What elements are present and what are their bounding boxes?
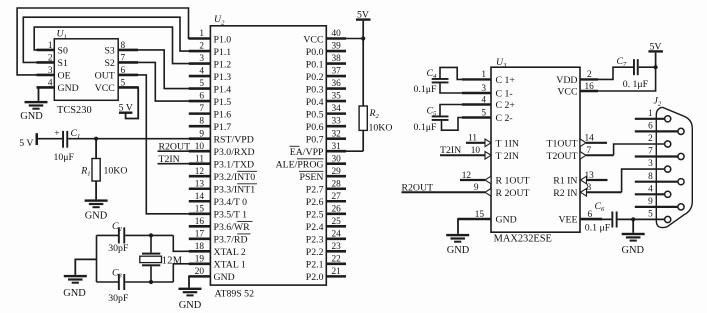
svg-text:P3.0/RXD: P3.0/RXD	[214, 147, 255, 158]
IC U3 MAX232ESE	[462, 57, 594, 245]
svg-text:P3.2/INT0: P3.2/INT0	[214, 172, 256, 183]
wire pin12 stub	[460, 179, 485, 181]
J2 pin circles	[665, 116, 685, 223]
svg-text:C 2+: C 2+	[496, 100, 516, 111]
wire net VCC40 to 5V	[326, 38, 363, 40]
svg-text:P2.0: P2.0	[306, 272, 324, 283]
junction node RST	[94, 137, 98, 141]
svg-text:9: 9	[648, 197, 653, 207]
wire net C5+ to pin4	[440, 105, 491, 116]
svg-text:10KO: 10KO	[104, 166, 128, 177]
U3 left pin stubs thick	[458, 79, 491, 219]
svg-text:GND: GND	[214, 272, 235, 283]
svg-text:GND: GND	[85, 210, 108, 221]
capacitor C5 0.1uF	[414, 106, 449, 134]
wire J2 pin7 stub	[635, 155, 678, 157]
ground at C6	[622, 233, 645, 235]
svg-text:VCC: VCC	[557, 87, 577, 98]
capacitor C1 10uF	[54, 128, 81, 163]
wire J2 pin1 stub	[635, 118, 665, 120]
wire net S1 to P1.1	[23, 17, 210, 62]
svg-text:P0.0: P0.0	[306, 47, 324, 58]
buffer triangle pin14 T1OUT	[580, 139, 586, 147]
svg-text:XTAL 1: XTAL 1	[214, 260, 246, 271]
svg-text:GND: GND	[58, 83, 79, 94]
wire J2 pin6 stub	[635, 130, 678, 132]
wire pin14 T1OUT stub	[586, 142, 607, 144]
svg-text:6: 6	[648, 122, 653, 132]
wire net C4- to pin3	[440, 83, 491, 93]
svg-text:P3.5/T 1: P3.5/T 1	[214, 210, 248, 221]
svg-text:AT89S 52: AT89S 52	[215, 289, 255, 300]
svg-text:1: 1	[648, 109, 653, 119]
wire pin13 R1IN stub	[587, 179, 608, 181]
wire net R2IN to J2 pin3	[587, 169, 665, 192]
svg-text:S2: S2	[104, 58, 114, 69]
resistor R2 10KO	[359, 39, 392, 152]
svg-text:10KO: 10KO	[369, 123, 393, 134]
buffer triangle pin8 R2IN	[581, 189, 587, 197]
wire pin11 stub	[466, 142, 485, 144]
U3 right pin stubs thick	[580, 79, 602, 219]
wire J2 pin4 stub	[635, 193, 665, 195]
svg-text:T 1IN: T 1IN	[496, 138, 520, 149]
wire net C5- to pin5	[442, 118, 492, 131]
junction node 5V/C7	[654, 65, 658, 69]
wire net OUT to P3.5/T1	[118, 75, 210, 214]
svg-text:2: 2	[648, 134, 653, 144]
svg-text:P0.1: P0.1	[306, 59, 324, 70]
svg-text:R2OUT: R2OUT	[402, 183, 434, 194]
svg-text:VEE: VEE	[558, 215, 577, 226]
svg-text:P0.4: P0.4	[306, 97, 324, 108]
junction node XTAL2	[149, 233, 153, 237]
svg-text:0.1 μF: 0.1 μF	[585, 222, 611, 233]
svg-text:GND: GND	[496, 215, 517, 226]
capacitor C3 30pF	[97, 267, 174, 303]
svg-text:P0.7: P0.7	[306, 134, 324, 145]
svg-text:P2.2: P2.2	[306, 247, 324, 258]
wire net C3 to XTAL1	[173, 264, 210, 282]
wire net T2OUT to J2 pin2	[586, 144, 665, 155]
svg-text:P2.6: P2.6	[306, 197, 324, 208]
buffer triangle pin13 R1IN	[581, 176, 587, 184]
svg-text:P3.6/WR: P3.6/WR	[214, 222, 251, 233]
svg-text:R 2OUT: R 2OUT	[496, 188, 530, 199]
svg-text:P0.2: P0.2	[306, 72, 324, 83]
buffer triangle pin7 T2OUT	[580, 152, 586, 160]
ground at R1	[85, 199, 108, 201]
svg-text:T2IN: T2IN	[440, 145, 461, 156]
svg-text:5: 5	[648, 210, 653, 220]
svg-text:P0.6: P0.6	[306, 122, 324, 133]
capacitor C6 0.1uF	[585, 201, 618, 233]
svg-text:P1.6: P1.6	[214, 109, 232, 120]
svg-text:P0.3: P0.3	[306, 84, 324, 95]
junction node XTAL1	[149, 280, 153, 284]
svg-text:P1.4: P1.4	[214, 84, 232, 95]
svg-text:MAX232ESE: MAX232ESE	[494, 233, 552, 244]
svg-text:P2.1: P2.1	[306, 260, 324, 271]
svg-text:R1 IN: R1 IN	[553, 176, 577, 187]
wire net S0 to P1.2	[34, 27, 210, 63]
svg-text:10μF: 10μF	[54, 152, 75, 163]
wire net 5V to RST/VPD	[38, 138, 62, 140]
wire net T2IN to P3.1/TXD	[158, 154, 211, 165]
svg-text:GND: GND	[20, 111, 43, 122]
svg-text:C 1-: C 1-	[496, 89, 513, 100]
svg-text:RST/VPD: RST/VPD	[214, 134, 254, 145]
power 5V terminal at R2	[356, 9, 371, 38]
wire left bus C2-C3	[96, 235, 98, 282]
buffer triangle pin10 T2IN	[485, 152, 491, 160]
svg-text:GND: GND	[63, 288, 86, 299]
wire net S3 to P1.4	[118, 50, 210, 89]
svg-text:0.1μF: 0.1μF	[414, 122, 437, 133]
J2 pin number labels	[648, 109, 653, 220]
svg-text:7: 7	[648, 147, 653, 157]
svg-text:VCC: VCC	[95, 83, 115, 94]
svg-text:S0: S0	[58, 46, 68, 57]
wire net VEE to C6	[580, 218, 611, 220]
svg-text:T2IN: T2IN	[159, 154, 180, 165]
wire net 5V to VCC16	[580, 67, 656, 91]
svg-text:S1: S1	[58, 58, 68, 69]
IC U1 TCS230	[48, 29, 126, 117]
svg-text:GND: GND	[621, 245, 644, 256]
power 5V terminal left	[19, 133, 38, 149]
wire net C6 to J2 pin5 and ground	[618, 218, 665, 220]
svg-text:S3: S3	[104, 46, 114, 57]
U1 pin stubs	[37, 50, 139, 88]
wire GND pin20	[189, 276, 210, 287]
svg-text:ALE/PROG: ALE/PROG	[276, 160, 324, 171]
wire J2 pin8 stub	[635, 181, 678, 183]
capacitor C4 0.1uF	[414, 68, 449, 95]
svg-text:5 V: 5 V	[19, 138, 33, 149]
svg-text:P2.7: P2.7	[306, 185, 324, 196]
buffer triangle pin9 R2OUT	[485, 189, 491, 197]
svg-text:3: 3	[648, 159, 653, 169]
wire gnd tap	[75, 259, 96, 275]
svg-text:OUT: OUT	[95, 71, 115, 82]
svg-text:T 2IN: T 2IN	[496, 151, 520, 162]
wire net R2OUT to P3.0/RXD	[158, 142, 211, 153]
wire net T2IN into pin10	[440, 145, 485, 156]
svg-text:C 1+: C 1+	[496, 75, 516, 86]
ground at U3 pin15	[446, 234, 469, 236]
svg-text:OE: OE	[58, 71, 71, 82]
power 5V terminal at U3	[648, 41, 663, 67]
buffer triangle pin12 R1OUT	[485, 176, 491, 184]
U2 left pin stubs 1-20	[189, 39, 211, 277]
svg-text:P1.3: P1.3	[214, 72, 232, 83]
IC U2 AT89S52	[195, 14, 341, 299]
wire net OE to P1.0	[17, 8, 210, 75]
svg-text:XTAL 2: XTAL 2	[214, 247, 246, 258]
svg-text:P3.3/INT1: P3.3/INT1	[214, 185, 256, 196]
svg-text:PSEN: PSEN	[300, 172, 324, 183]
wire net R2 to EA/VPP	[326, 150, 363, 152]
buffer triangle pin11 T1IN	[485, 139, 491, 147]
svg-text:P2.4: P2.4	[306, 222, 324, 233]
svg-text:P2.3: P2.3	[306, 235, 324, 246]
svg-text:TCS230: TCS230	[57, 105, 92, 116]
svg-text:P0.5: P0.5	[306, 109, 324, 120]
svg-text:P3.4/T 0: P3.4/T 0	[214, 197, 248, 208]
svg-text:30pF: 30pF	[108, 243, 129, 254]
wire net S2 to P1.5	[118, 62, 210, 101]
wire net VDD to C7/5V	[580, 67, 633, 79]
connector J2 DB9 shell	[654, 96, 693, 228]
wire J2 pin9 stub	[635, 206, 678, 208]
svg-text:T1OUT: T1OUT	[546, 138, 577, 149]
svg-text:T2OUT: T2OUT	[546, 151, 577, 162]
svg-text:EA/VPP: EA/VPP	[290, 147, 324, 158]
svg-text:VDD: VDD	[556, 75, 577, 86]
svg-text:0. 1μF: 0. 1μF	[623, 79, 649, 90]
svg-text:30pF: 30pF	[108, 293, 129, 304]
ground at C2/C3	[64, 275, 87, 277]
svg-text:P1.7: P1.7	[214, 122, 232, 133]
junction node VCC40	[361, 36, 365, 40]
svg-text:4: 4	[648, 184, 653, 194]
capacitor C2 30pF	[97, 221, 174, 254]
svg-text:+: +	[54, 129, 59, 139]
svg-text:VCC: VCC	[303, 34, 323, 45]
svg-text:8: 8	[648, 172, 653, 182]
svg-text:GND: GND	[447, 245, 470, 256]
wire net C4+ to pin1	[440, 67, 491, 79]
svg-text:R2OUT: R2OUT	[159, 142, 191, 153]
wire net C2 to XTAL2	[173, 235, 210, 251]
ground at U1 pin4	[20, 87, 54, 122]
ground at U2 pin20	[179, 288, 202, 290]
power 5V terminal at U1 VCC	[118, 87, 138, 118]
svg-text:P3.7/RD: P3.7/RD	[214, 235, 248, 246]
svg-text:5 V: 5 V	[119, 103, 133, 114]
wire GND pin15	[458, 219, 491, 234]
resistor R1 10KO	[80, 139, 127, 200]
svg-text:12M: 12M	[162, 256, 183, 267]
wire net R2OUT into pin9	[402, 183, 486, 194]
svg-text:GND: GND	[179, 300, 202, 311]
svg-text:P2.5: P2.5	[306, 210, 324, 221]
svg-text:R2 IN: R2 IN	[553, 188, 577, 199]
svg-text:C 2-: C 2-	[496, 113, 513, 124]
svg-text:P1.0: P1.0	[214, 34, 232, 45]
svg-text:0.1μF: 0.1μF	[414, 84, 437, 95]
svg-text:P1.5: P1.5	[214, 97, 232, 108]
svg-text:R 1OUT: R 1OUT	[496, 176, 530, 187]
crystal Y1 12M	[140, 235, 183, 282]
junction node C6 gnd	[631, 217, 635, 221]
svg-text:P3.1/TXD: P3.1/TXD	[214, 160, 255, 171]
U2 right pin stubs 40-21	[326, 39, 346, 277]
svg-text:P1.2: P1.2	[214, 59, 232, 70]
capacitor C7 0.1uF	[617, 56, 649, 90]
svg-text:P1.1: P1.1	[214, 47, 232, 58]
